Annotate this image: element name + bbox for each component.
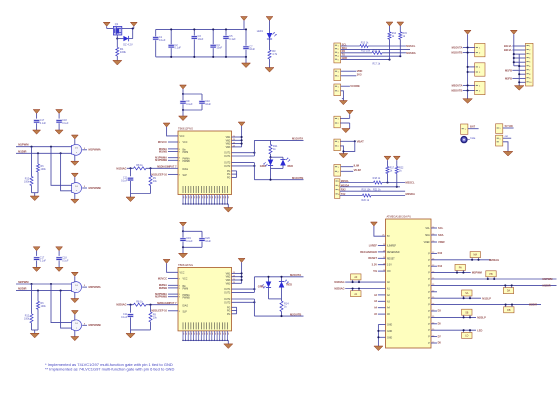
wire — [512, 45, 525, 47]
svg-text:SCL: SCL — [425, 228, 430, 230]
power flag VCC — [241, 17, 248, 21]
svg-text:RED: RED — [287, 283, 293, 287]
power flag C19 — [180, 222, 187, 226]
wire pin SDA — [431, 234, 437, 236]
svg-text:100k: 100k — [24, 180, 30, 183]
wire row5 — [341, 59, 390, 61]
svg-text:100k: 100k — [24, 318, 30, 321]
svg-text:BAT: BAT — [470, 125, 476, 129]
ground — [33, 130, 41, 134]
wire — [341, 170, 354, 172]
svg-text:M1SLEEP 10: M1SLEEP 10 — [151, 172, 167, 176]
svg-text:Q1: Q1 — [115, 22, 119, 26]
wire row2 — [341, 48, 410, 50]
wire row4 — [340, 195, 363, 197]
jumper SB — [462, 309, 472, 315]
svg-text:VILIM: VILIM — [354, 168, 362, 172]
wire net M2DIR — [431, 304, 541, 306]
resistor R22 pullup — [395, 167, 398, 174]
wire pin RECHARGED — [378, 251, 386, 253]
motor driver U1 TB6612FNG — [178, 131, 232, 195]
wire — [514, 61, 526, 63]
svg-text:VM2: VM2 — [226, 140, 231, 142]
svg-text:TB6612FNG: TB6612FNG — [178, 127, 193, 131]
svg-text:SDA: SDA — [438, 233, 444, 237]
wire PGND pin — [232, 306, 237, 308]
wire VM pin — [232, 282, 242, 284]
wire net M2PWM — [431, 272, 471, 274]
wire GND pins — [378, 324, 385, 326]
net label M1PWMB — [82, 187, 87, 189]
wire — [253, 140, 255, 156]
wire — [514, 53, 526, 55]
wire pin stub — [431, 323, 437, 325]
capacitor C17 — [33, 247, 40, 251]
wire — [253, 299, 255, 316]
svg-text:3.3V: 3.3V — [372, 263, 378, 267]
wire pin A3 — [378, 300, 386, 302]
svg-text:M2DIAG: M2DIAG — [116, 303, 126, 307]
svg-text:0.1uF: 0.1uF — [121, 316, 128, 319]
svg-text:R15 10k: R15 10k — [361, 49, 371, 52]
wire VM pin — [232, 143, 242, 145]
resistor R13 1k — [360, 45, 368, 48]
svg-text:M1PWMA: M1PWMA — [89, 148, 101, 152]
wire pin stub — [431, 336, 437, 338]
wire — [463, 52, 475, 54]
svg-text:DZ 4.2V: DZ 4.2V — [123, 42, 133, 46]
wire — [122, 28, 134, 30]
svg-text:c: c — [76, 327, 77, 329]
wire — [268, 288, 270, 299]
svg-text:10uF: 10uF — [198, 38, 204, 41]
wire row4 — [341, 55, 401, 57]
ground — [503, 151, 513, 156]
svg-text:M2DIAG: M2DIAG — [489, 258, 499, 262]
svg-text:OUT1: OUT1 — [224, 292, 231, 294]
resistor R8 1k — [134, 167, 147, 170]
svg-text:VCC: VCC — [183, 278, 188, 280]
svg-text:ILIM: ILIM — [354, 164, 360, 168]
svg-text:M1OUTA: M1OUTA — [292, 137, 303, 141]
svg-text:M2FB: M2FB — [505, 76, 512, 80]
mounting hole H1 — [461, 137, 467, 143]
connector J5 — [334, 139, 340, 151]
wire — [107, 28, 114, 30]
bottom pins — [182, 331, 184, 341]
svg-text:c: c — [76, 289, 77, 291]
wire M1OUTB — [254, 179, 303, 181]
svg-text:OUT2: OUT2 — [224, 302, 231, 304]
power flag — [346, 110, 353, 114]
wire — [345, 288, 385, 290]
wire — [519, 65, 525, 67]
capacitor C18 — [56, 110, 63, 114]
svg-text:VCC: VCC — [180, 136, 185, 138]
svg-text:M1OUTB: M1OUTB — [292, 176, 303, 180]
wire pin A5 — [378, 313, 386, 315]
svg-text:PG: PG — [227, 311, 231, 313]
svg-text:VM3: VM3 — [226, 283, 231, 285]
svg-text:100k: 100k — [41, 305, 47, 308]
wire — [503, 137, 511, 139]
power flag VCC — [163, 259, 170, 263]
wire rail — [467, 34, 469, 98]
svg-text:0.1uF: 0.1uF — [62, 122, 69, 125]
svg-text:M2SCL: M2SCL — [406, 181, 415, 185]
svg-text:PA: PA — [459, 267, 462, 270]
wire bottom bus — [183, 339, 228, 341]
svg-text:M2PWM: M2PWM — [472, 271, 482, 275]
power flag VCC — [163, 123, 170, 127]
jumper DB — [504, 307, 514, 313]
wire VM pin — [232, 276, 242, 278]
power flag — [71, 173, 78, 177]
svg-text:LVREF: LVREF — [369, 243, 378, 247]
net label M1PWMA — [82, 149, 87, 151]
wire — [167, 263, 178, 272]
svg-text:10uF: 10uF — [217, 47, 223, 50]
svg-text:PWMB: PWMB — [183, 297, 191, 299]
wire net M2DIAG — [431, 259, 490, 261]
svg-text:M2DIR: M2DIR — [529, 303, 537, 307]
wire — [236, 307, 238, 314]
svg-text:PG: PG — [227, 171, 231, 173]
svg-text:out: out — [505, 135, 509, 138]
svg-text:LED: LED — [477, 328, 482, 332]
svg-text:ATMEGA168 20A PU: ATMEGA168 20A PU — [387, 215, 412, 219]
wire — [269, 59, 271, 68]
wire — [340, 140, 355, 142]
svg-text:M2VCC: M2VCC — [158, 276, 167, 280]
wire VM pin — [232, 146, 242, 148]
svg-text:M1PWM: M1PWM — [18, 143, 29, 147]
svg-text:VM3: VM3 — [226, 144, 231, 146]
svg-text:PG: PG — [227, 174, 231, 176]
svg-text:M2PWM: M2PWM — [18, 280, 29, 284]
svg-text:0.1uF: 0.1uF — [40, 259, 47, 262]
wire — [341, 166, 354, 168]
svg-text:VCC: VCC — [180, 272, 185, 274]
wire OUT1 pin — [232, 288, 255, 290]
wire PWM — [16, 283, 72, 285]
svg-text:0.1uF: 0.1uF — [186, 240, 193, 243]
svg-text:VM2: VM2 — [226, 277, 231, 279]
wire OUT1 pin — [232, 152, 255, 154]
power flag pullup3 — [384, 156, 391, 160]
jumper MA — [470, 252, 480, 258]
power flag VM — [130, 22, 137, 26]
svg-text:c: c — [76, 152, 77, 154]
svg-text:OUT2: OUT2 — [224, 166, 231, 168]
svg-text:0.1uF: 0.1uF — [40, 122, 47, 125]
wire — [146, 167, 178, 169]
wire — [132, 29, 134, 39]
wire — [340, 117, 349, 119]
wire — [340, 146, 343, 154]
wire — [514, 57, 526, 59]
svg-text:VM1: VM1 — [226, 137, 231, 139]
svg-text:4.7k: 4.7k — [272, 52, 278, 56]
wire to gate2 b — [61, 291, 72, 329]
resistor R12 100k — [31, 284, 33, 314]
capacitor C7 — [245, 29, 247, 45]
svg-text:R20 1k: R20 1k — [362, 199, 370, 202]
svg-text:3.3V: 3.3V — [387, 265, 392, 267]
svg-text:VCORE: VCORE — [350, 84, 360, 88]
wire — [146, 304, 178, 306]
resistor R14 1k — [280, 301, 283, 312]
wire — [341, 75, 357, 77]
svg-text:0.1uF: 0.1uF — [121, 180, 128, 183]
svg-text:TB6612FNG: TB6612FNG — [178, 263, 193, 267]
svg-text:VM3: VM3 — [226, 147, 231, 149]
svg-text:ON: ON — [387, 271, 391, 273]
ground — [55, 267, 63, 271]
wire M2OUTA — [254, 276, 303, 278]
resistor R11 1k — [270, 140, 272, 144]
svg-text:M1SDA: M1SDA — [406, 51, 415, 55]
capacitor C19 — [182, 231, 184, 237]
svg-text:PWM: PWM — [183, 289, 189, 291]
wire — [127, 304, 134, 306]
power flag VIN — [103, 22, 110, 26]
wire M2OUTB — [254, 315, 303, 317]
svg-text:SDA: SDA — [425, 234, 430, 237]
wire net LED — [431, 329, 476, 331]
capacitor C11 0.1uF — [130, 305, 132, 313]
wire — [503, 142, 508, 152]
wire pin M1INB — [168, 151, 178, 153]
wire pin 3.3V — [378, 264, 386, 266]
ground — [33, 267, 41, 271]
svg-text:VDD: VDD — [357, 69, 363, 73]
wire OUT2 pin — [232, 298, 255, 300]
wire rail2 — [518, 54, 520, 86]
wire — [270, 166, 272, 169]
wire — [512, 69, 525, 71]
wire — [341, 85, 350, 87]
svg-text:M2DIAGINPUT 7: M2DIAGINPUT 7 — [157, 302, 177, 305]
wire bottom rail — [156, 56, 246, 58]
zener diode D2 — [123, 36, 128, 41]
LED D4 — [280, 160, 286, 166]
wire pin M2SLEEP 10 — [168, 310, 178, 312]
capacitor C9 — [182, 94, 184, 100]
svg-text:DA: DA — [507, 290, 511, 293]
svg-text:LED1: LED1 — [257, 30, 264, 33]
wire — [253, 277, 255, 293]
capacitor C2 — [170, 29, 172, 44]
power flag C9 — [180, 85, 187, 89]
wire — [463, 84, 475, 86]
ground — [30, 333, 39, 338]
svg-text:R16 1k: R16 1k — [373, 49, 381, 52]
svg-text:DIAG: DIAG — [183, 304, 189, 307]
jumper LD — [462, 332, 472, 338]
LED D5 — [268, 277, 270, 282]
svg-text:M1OUTA: M1OUTA — [452, 46, 463, 50]
wire pin A4 — [378, 307, 386, 309]
wire net M2SLP — [431, 316, 476, 318]
net label M2PWMA — [82, 286, 87, 288]
ground — [179, 116, 188, 121]
wire — [463, 90, 475, 92]
resistor R14 pullup — [388, 32, 391, 39]
wire — [116, 56, 118, 60]
resistor R20 1k — [362, 194, 371, 197]
connector J9 — [461, 124, 468, 134]
wire pin stub — [431, 310, 437, 312]
wire PGND pin — [232, 176, 237, 178]
wire pin stub — [431, 342, 437, 344]
wire — [182, 104, 184, 110]
wire — [182, 242, 184, 248]
wire — [271, 156, 284, 158]
svg-text:M2SDA: M2SDA — [406, 192, 415, 196]
wire — [32, 192, 39, 194]
wire — [463, 47, 475, 49]
wire VM pin — [232, 139, 242, 141]
wire — [253, 163, 255, 180]
svg-text:RED: RED — [288, 164, 294, 168]
jumper PB — [486, 271, 496, 277]
svg-text:RESET: RESET — [368, 256, 377, 260]
svg-text:0.1uF: 0.1uF — [159, 39, 166, 42]
capacitor C5 — [225, 29, 227, 35]
connector J11 — [496, 135, 503, 146]
ground — [374, 346, 383, 351]
wire row1 — [341, 45, 360, 47]
svg-text:M2SLEEP 10: M2SLEEP 10 — [151, 309, 167, 313]
wire — [32, 329, 39, 331]
svg-text:VCC: VCC — [183, 142, 188, 144]
wire PGND pin — [232, 173, 237, 175]
svg-text:M1INB: M1INB — [159, 149, 167, 153]
svg-text:SA: SA — [465, 292, 469, 295]
power flag 5V — [371, 222, 378, 226]
wire — [127, 167, 134, 169]
resistor R17 pullup — [386, 167, 389, 174]
svg-text:M2PWMB: M2PWMB — [89, 323, 101, 327]
ground — [74, 155, 76, 161]
svg-text:M2SLP: M2SLP — [477, 316, 486, 320]
svg-text:OUT2: OUT2 — [224, 299, 231, 301]
jumper SA — [462, 290, 472, 296]
svg-text:DB: DB — [507, 309, 511, 312]
wire pin stub — [431, 252, 437, 254]
wire pin M2INA — [168, 284, 178, 286]
svg-text:R8 1k: R8 1k — [136, 301, 143, 304]
wire pin M1PWMA — [168, 157, 178, 159]
wire pin M2PWMA — [168, 293, 178, 295]
connector J4 — [334, 116, 340, 128]
connector J3 — [334, 84, 341, 96]
jumper PA — [455, 264, 465, 270]
ground — [126, 197, 135, 202]
capacitor C20 — [199, 238, 205, 242]
motor driver U2 TB6612FNG — [178, 267, 232, 331]
wire PGND pin — [232, 313, 237, 315]
wire net M1DIR — [431, 284, 557, 286]
svg-text:M1DIR: M1DIR — [543, 284, 551, 288]
svg-text:RESET: RESET — [387, 258, 395, 260]
wire PGND pin — [232, 170, 237, 172]
svg-text:RESERVED: RESERVED — [387, 252, 400, 254]
svg-text:PWM: PWM — [183, 152, 189, 154]
wire VM pin — [232, 279, 242, 281]
power flag — [71, 272, 78, 276]
svg-text:R17 1k: R17 1k — [373, 63, 381, 66]
svg-text:M2PWMA: M2PWMA — [89, 285, 101, 289]
svg-text:R8 1k: R8 1k — [136, 164, 143, 167]
wire OUT2 pin — [232, 165, 255, 167]
wire — [512, 49, 525, 51]
wire — [340, 122, 349, 124]
wire top rail — [156, 28, 246, 30]
svg-text:M2OUTA: M2OUTA — [290, 273, 301, 277]
wire — [116, 35, 118, 39]
microcontroller U5 ATMEGA328P — [386, 219, 432, 348]
wire — [245, 57, 247, 63]
svg-text:SLP: SLP — [183, 311, 188, 313]
wire — [514, 65, 519, 67]
ground — [30, 196, 39, 201]
wire net M1SLP — [431, 297, 481, 299]
svg-text:M1OUTB: M1OUTB — [451, 51, 462, 55]
jumper block JP3 — [475, 81, 485, 94]
svg-text:M2DIAG: M2DIAG — [334, 287, 344, 291]
capacitor C10 — [199, 100, 205, 104]
svg-text:B1LVL: B1LVL — [504, 44, 512, 48]
wire pin M2INB — [168, 287, 178, 289]
LED D6 — [281, 277, 283, 282]
svg-text:M2INB: M2INB — [159, 286, 167, 290]
svg-text:M1DIAGINPUT 7: M1DIAGINPUT 7 — [157, 165, 177, 168]
resistor R16 1k — [372, 51, 382, 54]
wire pin M2VCC — [168, 277, 178, 279]
svg-text:VREF: VREF — [424, 242, 431, 244]
ground — [242, 63, 251, 68]
wire VM pin — [232, 272, 242, 274]
svg-text:GRN: GRN — [260, 164, 266, 168]
wire — [131, 329, 151, 331]
svg-text:GRN: GRN — [258, 285, 264, 289]
ground — [265, 68, 274, 73]
svg-text:GND: GND — [387, 331, 392, 333]
ground — [224, 344, 233, 349]
ground — [339, 101, 347, 105]
connector J2 — [334, 69, 341, 81]
wire — [269, 39, 271, 50]
wire — [512, 77, 525, 79]
svg-text:M1FB: M1FB — [505, 68, 512, 72]
svg-text:0.1uF: 0.1uF — [175, 47, 182, 50]
svg-text:100k: 100k — [120, 50, 127, 54]
capacitor C18 — [56, 247, 63, 251]
wire — [399, 39, 401, 56]
wire — [341, 70, 357, 72]
wire pin M1INA — [168, 148, 178, 150]
resistor R6 100k — [37, 291, 39, 302]
power flag pullup4 — [393, 156, 400, 160]
wire — [131, 193, 151, 195]
connector J7 — [335, 179, 340, 199]
wire pin stub — [431, 291, 437, 293]
ground — [74, 331, 76, 337]
ground — [179, 253, 188, 258]
wire — [183, 93, 202, 95]
